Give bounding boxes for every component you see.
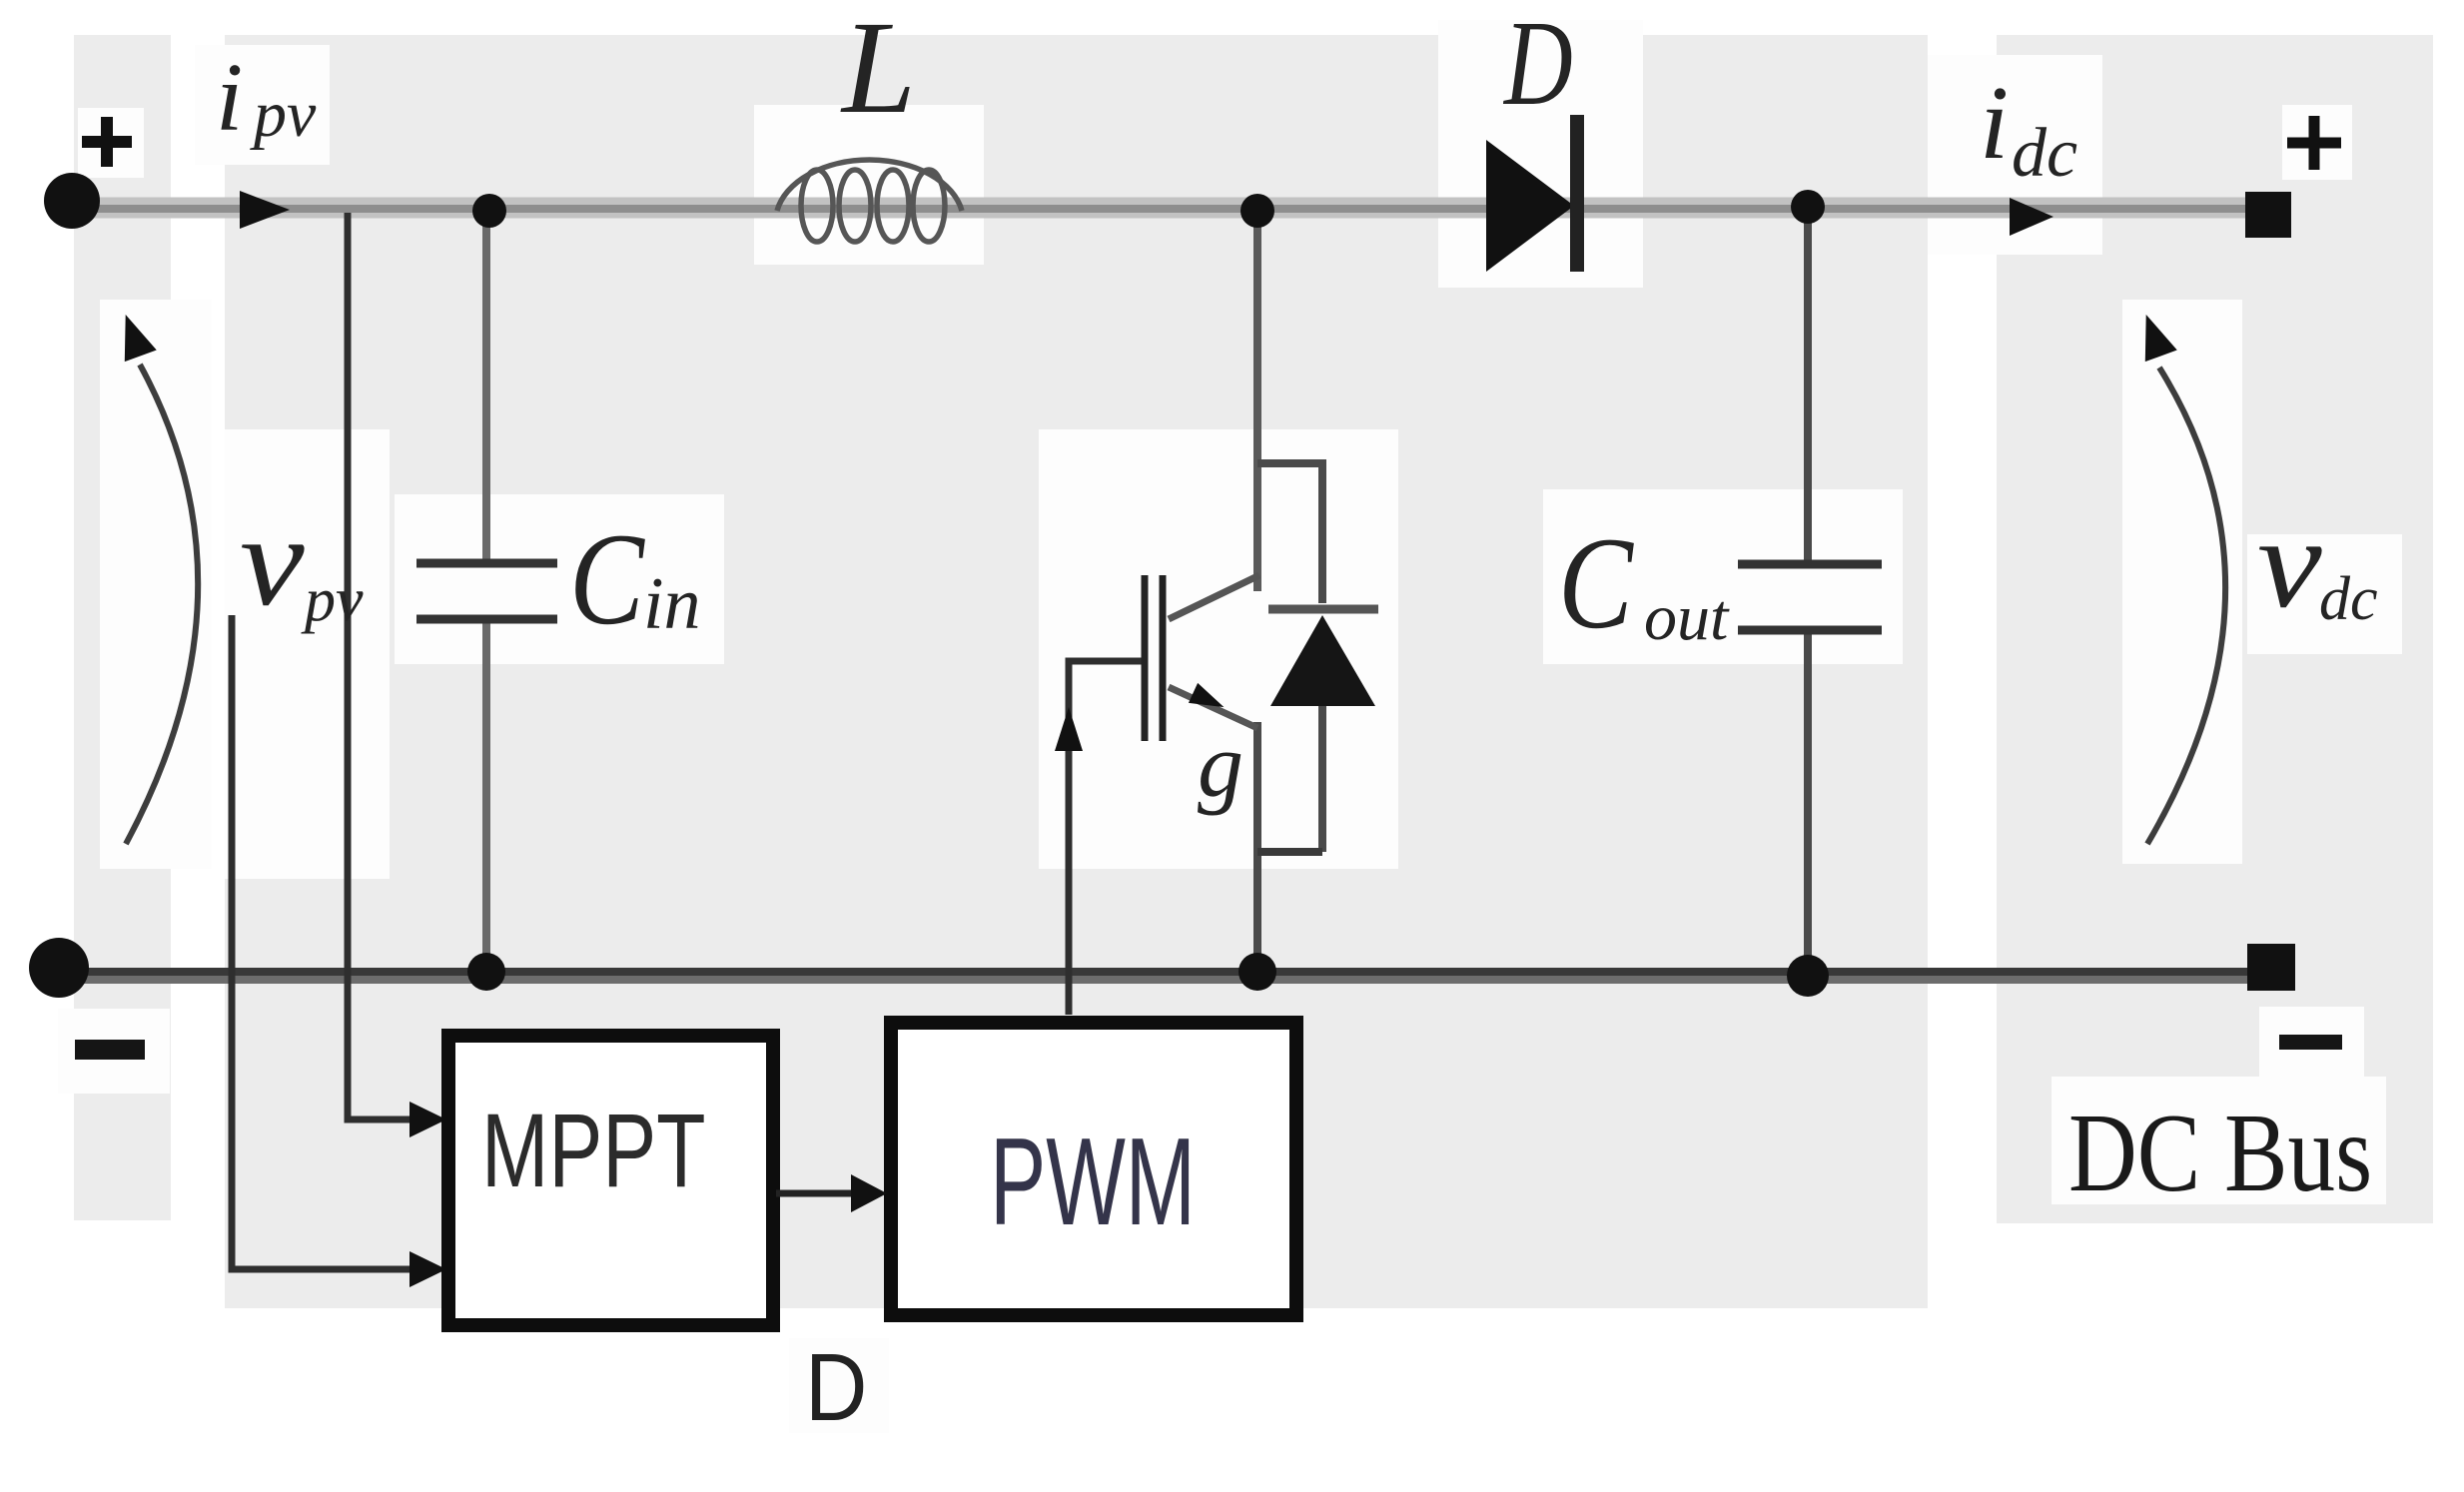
svg-text:in: in xyxy=(643,563,701,645)
svg-text:dc: dc xyxy=(2012,115,2077,192)
svg-text:DC Bus: DC Bus xyxy=(2068,1092,2372,1215)
svg-text:PWM: PWM xyxy=(990,1114,1196,1251)
svg-text:MPPT: MPPT xyxy=(481,1092,706,1209)
svg-text:dc: dc xyxy=(2319,565,2378,633)
svg-text:out: out xyxy=(1644,581,1730,654)
svg-text:C: C xyxy=(569,507,645,652)
svg-text:v: v xyxy=(240,488,305,632)
svg-text:C: C xyxy=(1558,511,1634,656)
svg-text:i: i xyxy=(216,44,243,152)
svg-text:g: g xyxy=(1198,714,1243,816)
svg-text:v: v xyxy=(2257,490,2322,634)
svg-text:D: D xyxy=(1502,0,1572,131)
svg-text:pv: pv xyxy=(250,78,317,151)
svg-text:pv: pv xyxy=(301,566,364,634)
svg-text:D: D xyxy=(805,1334,867,1441)
svg-text:L: L xyxy=(840,0,916,141)
svg-text:i: i xyxy=(1980,64,2009,181)
